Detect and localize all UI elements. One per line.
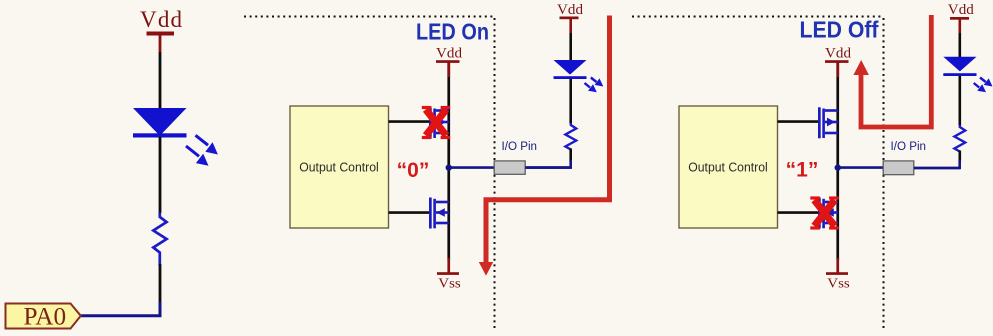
svg-text:LED On: LED On — [416, 19, 489, 45]
svg-text:Vdd: Vdd — [825, 46, 851, 62]
svg-text:PA0: PA0 — [24, 304, 67, 331]
svg-text:Vdd: Vdd — [140, 7, 183, 32]
svg-text:Vdd: Vdd — [557, 2, 583, 18]
svg-text:Output Control: Output Control — [299, 160, 379, 175]
svg-text:Output Control: Output Control — [688, 160, 768, 175]
svg-text:“0”: “0” — [397, 159, 430, 182]
svg-text:I/O Pin: I/O Pin — [502, 141, 538, 153]
svg-text:Vss: Vss — [827, 277, 850, 292]
svg-text:I/O Pin: I/O Pin — [891, 141, 927, 153]
svg-text:Vdd: Vdd — [436, 46, 462, 62]
svg-text:“1”: “1” — [786, 158, 819, 181]
svg-text:LED Off: LED Off — [800, 17, 879, 43]
svg-text:Vss: Vss — [438, 277, 461, 292]
svg-text:Vdd: Vdd — [948, 2, 974, 18]
